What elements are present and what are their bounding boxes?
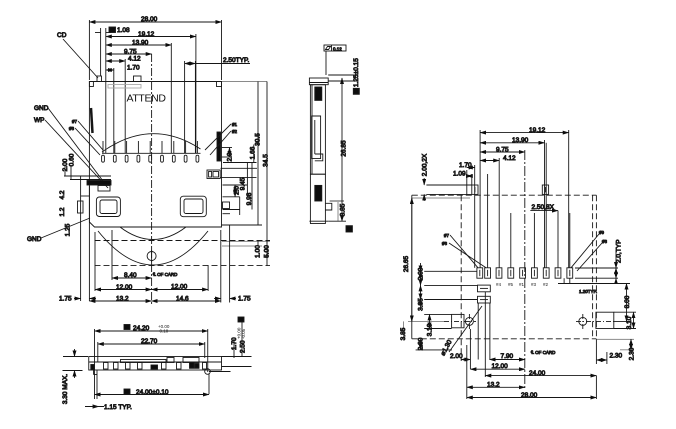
svg-text:#2: #2 bbox=[232, 129, 238, 134]
svg-text:1.20TYP.: 1.20TYP. bbox=[579, 289, 597, 294]
svg-text:1.08: 1.08 bbox=[117, 27, 130, 34]
latch right bbox=[180, 196, 206, 217]
svg-text:4.12: 4.12 bbox=[128, 56, 141, 63]
footprint dim 1.70 bbox=[467, 165, 475, 268]
latch left bbox=[96, 197, 120, 217]
svg-text:2.50: 2.50 bbox=[240, 340, 247, 353]
svg-text:℄ OF CARD: ℄ OF CARD bbox=[152, 272, 178, 277]
pad center lines bbox=[480, 270, 570, 276]
svg-text:#1: #1 bbox=[232, 122, 238, 127]
svg-text:1.2: 1.2 bbox=[59, 207, 66, 216]
dim 3.30 MAX bbox=[63, 349, 89, 378]
svg-text:28.00: 28.00 bbox=[141, 16, 158, 23]
front view body bbox=[89, 357, 222, 371]
svg-text:7.90: 7.90 bbox=[501, 353, 514, 360]
dim 24.20 bbox=[95, 325, 208, 400]
dim 13.2 fp bbox=[467, 345, 525, 399]
dashed card lines bbox=[95, 241, 271, 266]
svg-text:#1: #1 bbox=[519, 282, 525, 287]
dim 2.30 left fp bbox=[416, 339, 452, 350]
left side small tab bbox=[78, 201, 84, 213]
right side horizontals view1 bbox=[221, 148, 263, 226]
dim 3.10 right bbox=[614, 312, 636, 328]
front left leg bbox=[94, 370, 98, 399]
dim 13.2 bbox=[89, 300, 151, 302]
svg-text:0.60: 0.60 bbox=[69, 153, 76, 166]
svg-text:WP: WP bbox=[34, 117, 44, 124]
svg-text:2.00: 2.00 bbox=[450, 353, 463, 360]
dim 2.50TYP pitch bbox=[185, 61, 250, 153]
dim 2.30 right horizontal bbox=[596, 339, 607, 364]
front view pins bbox=[91, 358, 207, 370]
svg-text:#7: #7 bbox=[444, 233, 450, 238]
svg-text:12.00: 12.00 bbox=[171, 284, 188, 291]
footprint dashed outline bbox=[412, 195, 597, 339]
dim 26.85 side bbox=[328, 78, 346, 221]
footprint dim 4.12 bbox=[480, 158, 499, 268]
dim 26.65 bbox=[408, 198, 470, 321]
svg-text:2.0: 2.0 bbox=[234, 186, 241, 195]
emboss line bbox=[108, 85, 141, 89]
svg-text:3.10: 3.10 bbox=[626, 316, 633, 329]
dim 28.00 fp bbox=[467, 376, 597, 399]
svg-text:4.2: 4.2 bbox=[59, 190, 66, 199]
dims 1.00 5.00 right lower bbox=[222, 241, 270, 265]
leaders #9 #8 footprint right bbox=[571, 230, 608, 271]
svg-text:22.70: 22.70 bbox=[141, 338, 158, 345]
dim 2.50 8X bbox=[530, 211, 570, 268]
svg-text:14.6: 14.6 bbox=[176, 296, 189, 303]
dim 8.40 bbox=[112, 230, 152, 280]
svg-text:#3: #3 bbox=[531, 282, 537, 287]
contact arc bbox=[102, 134, 201, 152]
svg-text:1.09: 1.09 bbox=[453, 171, 466, 178]
top tab bbox=[134, 76, 142, 82]
svg-text:#8: #8 bbox=[69, 126, 75, 131]
dim 3.85 side bbox=[330, 201, 344, 221]
footprint dim 19.12 bbox=[480, 130, 569, 268]
body outline top view bbox=[89, 82, 221, 228]
left dims 2.00 0.60 bbox=[64, 166, 111, 180]
CD spring thick bbox=[91, 108, 93, 133]
dim 1.20 TYP bbox=[558, 278, 610, 284]
svg-text:34.5: 34.5 bbox=[263, 154, 270, 167]
svg-text:19.12: 19.12 bbox=[138, 31, 155, 38]
side view body bbox=[309, 78, 331, 224]
svg-text:CD: CD bbox=[57, 32, 67, 39]
svg-text:2.50TYP.: 2.50TYP. bbox=[223, 57, 249, 64]
svg-text:3.30 MAX.: 3.30 MAX. bbox=[62, 374, 69, 405]
pin 9 thick bar bbox=[217, 132, 221, 161]
svg-text:13.90: 13.90 bbox=[512, 137, 529, 144]
card arc small bbox=[120, 227, 186, 240]
WP slider bbox=[87, 181, 111, 192]
dashed card width lines bbox=[461, 195, 592, 361]
pins row bbox=[102, 141, 201, 162]
front right leg circle bbox=[205, 369, 231, 394]
dim 2.30 right fp rotated bbox=[596, 339, 634, 350]
svg-text:#5: #5 bbox=[508, 282, 514, 287]
svg-text:1.15 TYP.: 1.15 TYP. bbox=[104, 404, 132, 411]
dim 3.85 left bbox=[403, 321, 405, 339]
svg-text:0.12: 0.12 bbox=[333, 46, 342, 51]
dim 2.0 TYP right bbox=[575, 250, 618, 284]
svg-text:30.5: 30.5 bbox=[255, 133, 262, 146]
dim 12.00 bbox=[470, 368, 525, 370]
pad number labels bbox=[496, 282, 549, 287]
dim 9.75 bbox=[106, 53, 152, 55]
svg-text:19.12: 19.12 bbox=[529, 127, 546, 134]
svg-text:8.00: 8.00 bbox=[624, 295, 631, 308]
labels pin7 pin8 bbox=[69, 119, 103, 155]
dim 19.12 bbox=[106, 34, 196, 153]
centerline view1 bbox=[151, 54, 153, 305]
svg-text:-0.05: -0.05 bbox=[241, 328, 246, 339]
svg-text:#2: #2 bbox=[543, 282, 549, 287]
svg-text:2.30: 2.30 bbox=[610, 353, 623, 360]
dim 1.75 right bbox=[214, 225, 236, 303]
svg-text:3.85: 3.85 bbox=[340, 203, 347, 216]
card arc big bbox=[98, 231, 208, 265]
dim 1.75 left bbox=[74, 298, 96, 300]
svg-text:13.2: 13.2 bbox=[116, 296, 129, 303]
dim 1.25±0.15 side bbox=[328, 75, 359, 94]
CD pin tab bbox=[97, 76, 102, 82]
dim 12.00 right bbox=[152, 265, 209, 291]
svg-text:1.70: 1.70 bbox=[459, 162, 472, 169]
dim 1.15 TYP bbox=[85, 405, 104, 408]
svg-text:ATTEND: ATTEND bbox=[127, 93, 167, 105]
dim 2.00 bbox=[461, 329, 470, 369]
svg-text:9.45: 9.45 bbox=[240, 177, 247, 190]
small pads left bbox=[478, 285, 491, 303]
svg-text:28.00: 28.00 bbox=[521, 392, 538, 399]
svg-text:℄ OF CARD: ℄ OF CARD bbox=[530, 350, 556, 355]
svg-text:3.85: 3.85 bbox=[400, 327, 407, 340]
mount pads 2.00 2X bbox=[472, 185, 549, 194]
svg-text:26.85: 26.85 bbox=[341, 140, 348, 157]
svg-text:4.12: 4.12 bbox=[503, 155, 516, 162]
right vertical dims view1 bbox=[222, 82, 268, 244]
svg-text:24.00±0.10: 24.00±0.10 bbox=[136, 389, 169, 396]
svg-text:3.10: 3.10 bbox=[427, 323, 434, 336]
dim 8.00 bbox=[610, 284, 630, 322]
svg-text:#6: #6 bbox=[442, 241, 448, 246]
labels GND WP left bbox=[34, 105, 108, 188]
svg-text:GND: GND bbox=[27, 236, 42, 243]
svg-text:#8: #8 bbox=[602, 239, 608, 244]
svg-text:9.98: 9.98 bbox=[246, 192, 253, 205]
svg-text:1.25±0.15: 1.25±0.15 bbox=[353, 58, 360, 87]
centroid mark bbox=[147, 248, 156, 264]
dim 22.70 bbox=[98, 342, 205, 362]
pads row footprint bbox=[477, 268, 573, 278]
dim 2.00 2X bbox=[424, 178, 472, 201]
svg-text:GND: GND bbox=[34, 105, 49, 112]
svg-text:2.0,TYP: 2.0,TYP bbox=[616, 240, 623, 263]
svg-text:#7: #7 bbox=[72, 119, 78, 124]
svg-text:13.2: 13.2 bbox=[487, 382, 500, 389]
svg-text:2.00: 2.00 bbox=[418, 267, 425, 280]
small latch right side bbox=[207, 170, 220, 179]
right hole pad bbox=[576, 312, 616, 329]
svg-text:12.00: 12.00 bbox=[116, 284, 133, 291]
svg-text:-0.10: -0.10 bbox=[158, 329, 169, 334]
svg-text:26.65: 26.65 bbox=[403, 255, 410, 272]
flatness feature control frame bbox=[324, 45, 346, 75]
GND bottom label bbox=[27, 218, 90, 243]
svg-text:#4: #4 bbox=[496, 282, 502, 287]
svg-text:8.40: 8.40 bbox=[124, 272, 137, 279]
centerline footprint bbox=[524, 150, 526, 390]
dim 12.00 left bbox=[95, 232, 152, 291]
svg-text:1.66: 1.66 bbox=[250, 146, 257, 159]
svg-text:1.70: 1.70 bbox=[127, 65, 140, 72]
svg-text:24.00: 24.00 bbox=[529, 370, 546, 377]
svg-text:9.75: 9.75 bbox=[124, 49, 137, 56]
pad stems bbox=[511, 143, 546, 268]
dim 7.90 bbox=[478, 303, 525, 360]
svg-text:2.30: 2.30 bbox=[418, 337, 425, 350]
svg-text:2.0: 2.0 bbox=[227, 152, 234, 161]
left hole pad bbox=[444, 314, 476, 329]
right edge tab bbox=[223, 202, 231, 214]
dim 28.00 top bbox=[89, 20, 221, 80]
svg-text:2.50,8X: 2.50,8X bbox=[532, 204, 555, 211]
dim 3.10 left hole bbox=[424, 314, 451, 328]
svg-text:24.20: 24.20 bbox=[133, 325, 150, 332]
labels pin1 pin2 right bbox=[205, 122, 238, 155]
dim 4.12 bbox=[106, 59, 125, 153]
svg-text:5.00: 5.00 bbox=[264, 245, 271, 258]
dim 24.00 bbox=[95, 389, 210, 395]
svg-text:#9: #9 bbox=[599, 230, 605, 235]
svg-text:1.75: 1.75 bbox=[59, 296, 72, 303]
svg-text:1.25: 1.25 bbox=[65, 223, 72, 236]
svg-text:3.05: 3.05 bbox=[418, 298, 425, 311]
dim 24.00 fp bbox=[485, 292, 596, 377]
left extension verticals bbox=[81, 176, 90, 301]
square marker bottom side bbox=[346, 226, 352, 232]
dim 13.90 bbox=[106, 43, 172, 153]
svg-text:13.90: 13.90 bbox=[132, 40, 149, 47]
svg-text:2.00,2X: 2.00,2X bbox=[422, 153, 429, 176]
leader dia 1.30 bbox=[449, 306, 482, 352]
dim 3.05 left fp bbox=[424, 299, 477, 301]
footprint dim 9.75 bbox=[480, 151, 525, 153]
label CD bbox=[57, 32, 98, 78]
svg-text:12.00: 12.00 bbox=[492, 363, 509, 370]
dim 1.70 bbox=[106, 68, 114, 153]
footprint dim 13.90 bbox=[480, 140, 544, 268]
leaders #7 #6 footprint bbox=[442, 233, 486, 268]
dim 1.08 with square bbox=[95, 27, 116, 153]
dims right of front view 1.70 / 2.50 bbox=[222, 317, 252, 367]
footprint dim 1.09 bbox=[467, 170, 488, 268]
svg-text:9.75: 9.75 bbox=[496, 147, 509, 154]
dim 2.00 left fp bbox=[421, 263, 478, 310]
svg-text:1.00: 1.00 bbox=[255, 245, 262, 258]
dim 14.6 bbox=[152, 230, 221, 303]
svg-text:2.30: 2.30 bbox=[629, 347, 636, 360]
svg-text:1.75: 1.75 bbox=[238, 296, 251, 303]
